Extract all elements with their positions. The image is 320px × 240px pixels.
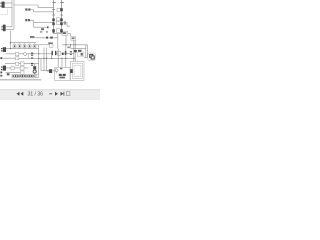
svg-text:31 / 36: 31 / 36: [28, 92, 44, 98]
